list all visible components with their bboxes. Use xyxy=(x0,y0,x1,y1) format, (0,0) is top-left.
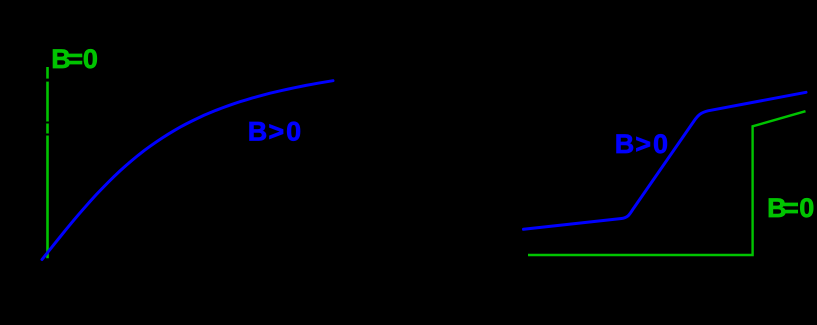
svg-text:B=0: B=0 xyxy=(767,193,814,223)
svg-text:B=0: B=0 xyxy=(51,44,98,74)
left plot: B>0 magnetization curve xyxy=(42,81,333,260)
svg-text:B>0: B>0 xyxy=(248,117,301,147)
svg-text:B>0: B>0 xyxy=(615,129,668,159)
right plot: B=0 step curve xyxy=(528,111,806,255)
right plot: B>0 sigmoid curve xyxy=(524,92,807,229)
gaps on B=0 line (black dotted axis crossings) xyxy=(46,79,50,82)
left plot: B=0 vertical line xyxy=(46,67,49,258)
